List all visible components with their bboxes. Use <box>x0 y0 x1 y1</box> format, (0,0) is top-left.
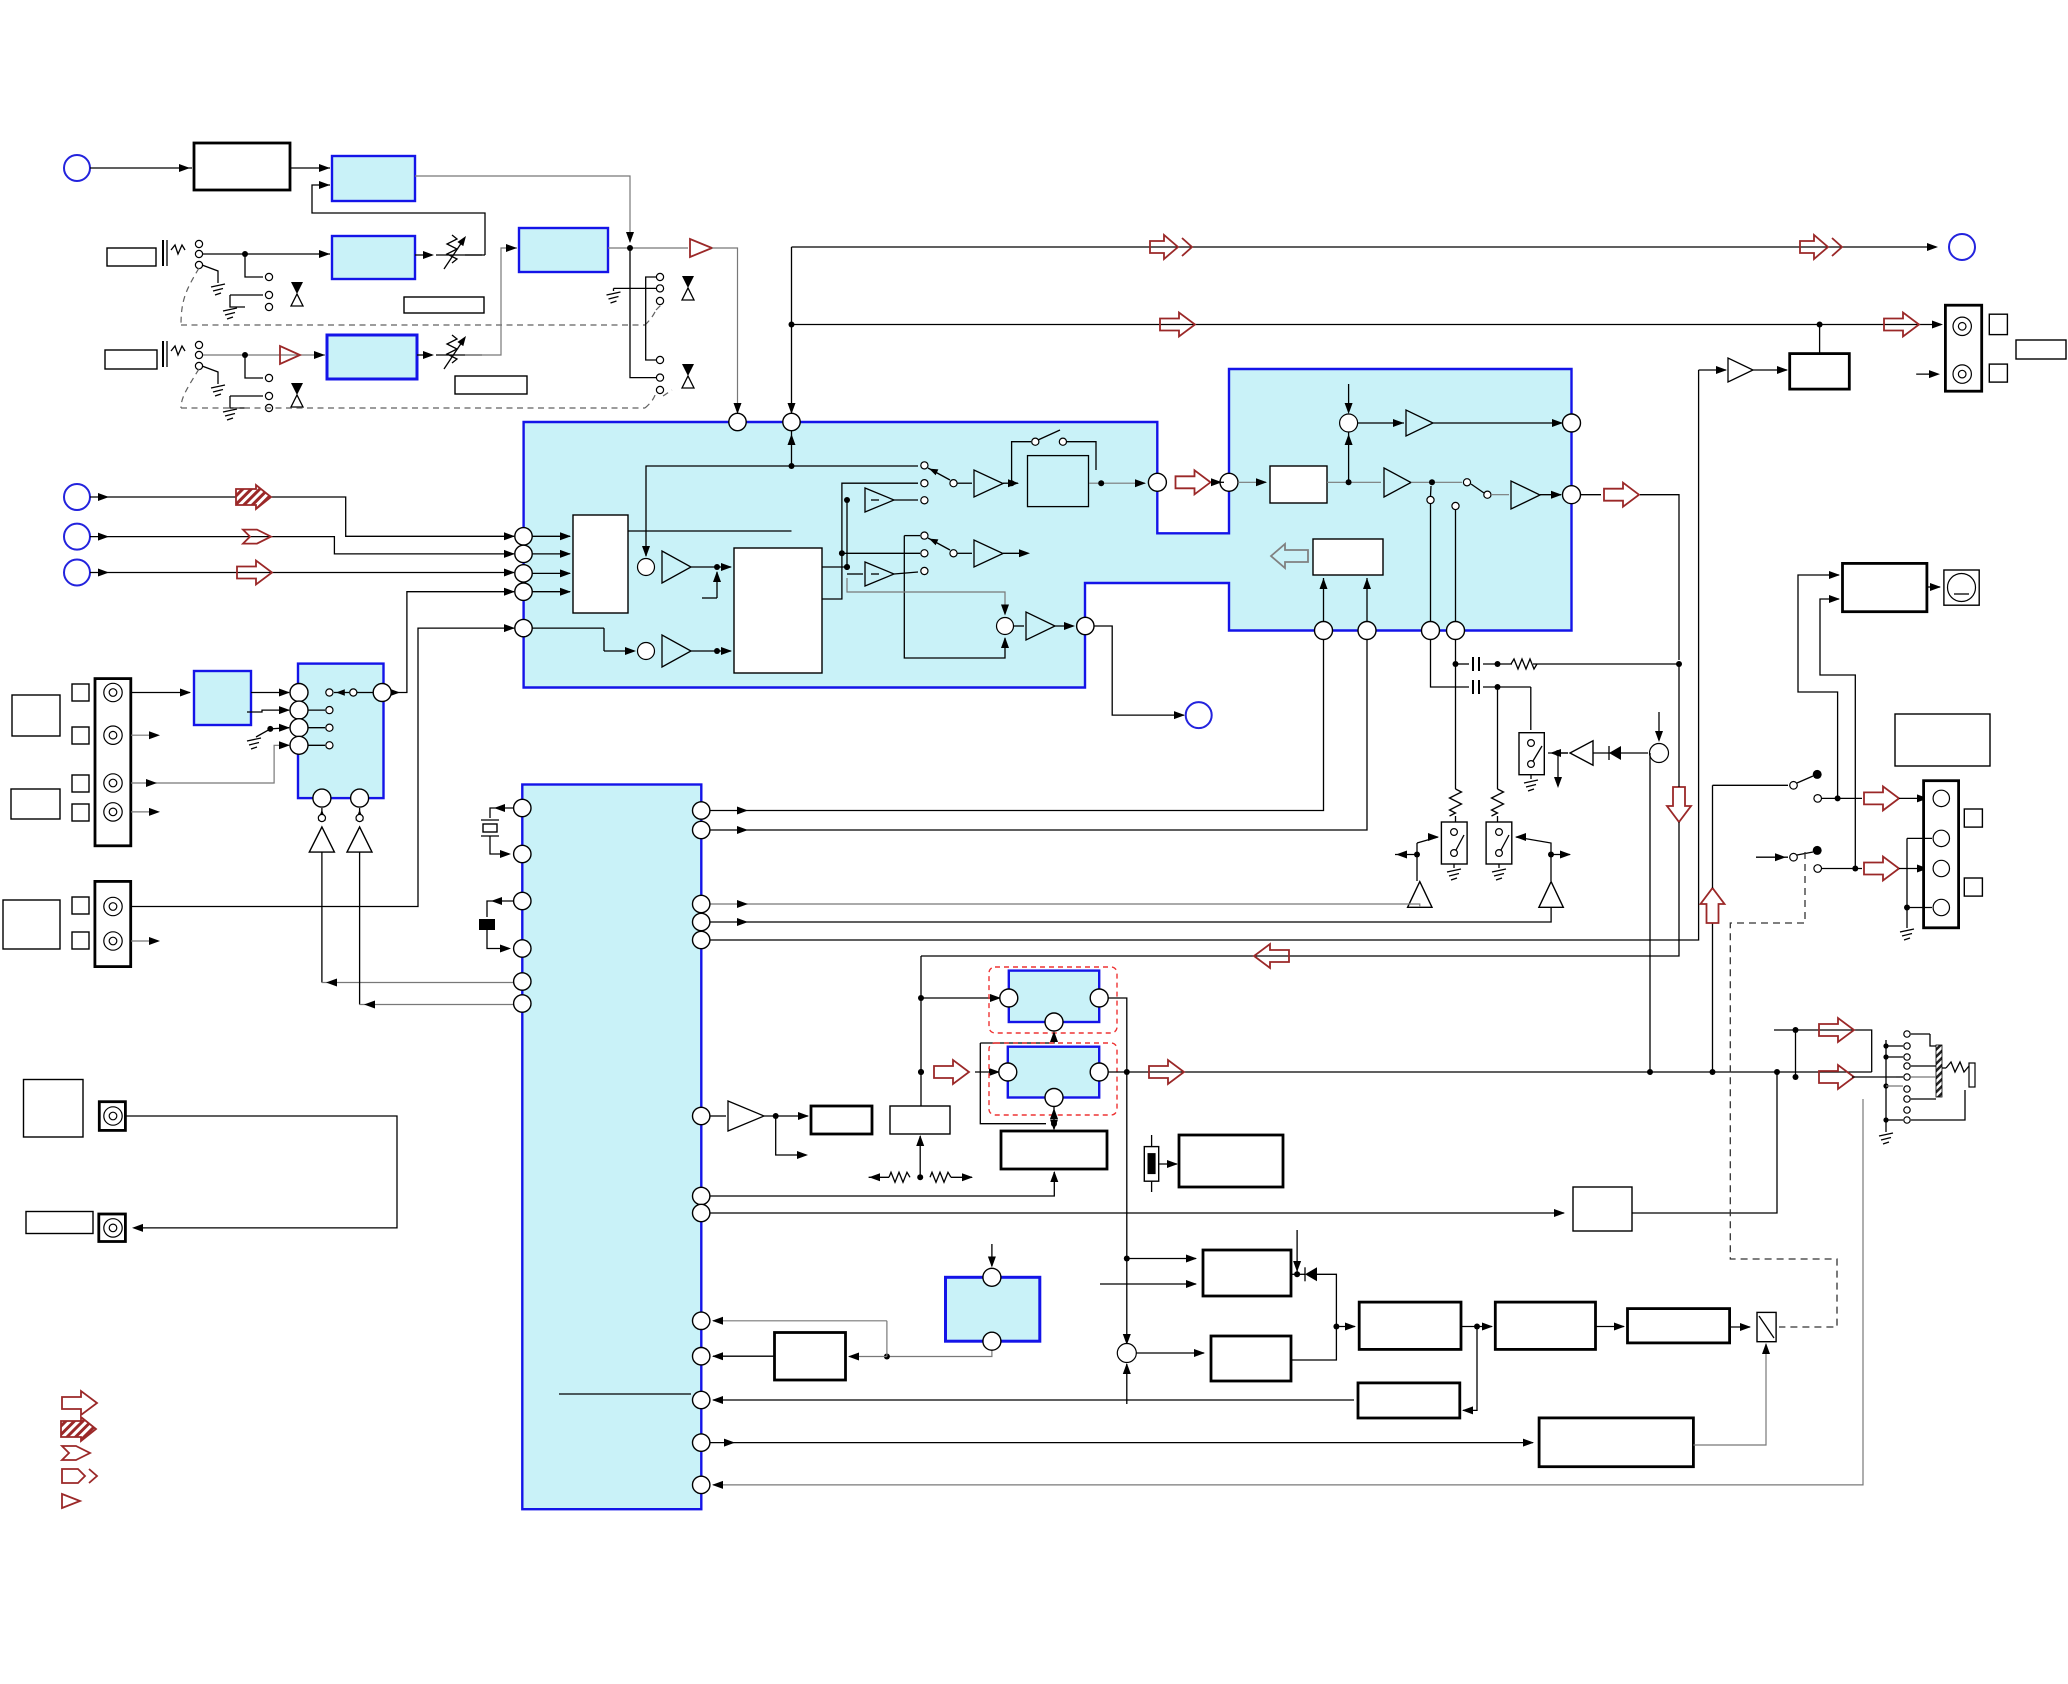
block cpu bold block4 <box>1179 1135 1283 1187</box>
wire chainC to mux <box>1730 1326 1750 1328</box>
wire pin1400 to blockD2 <box>713 1399 1354 1401</box>
stub into jack2 <box>1916 373 1938 375</box>
blockA pins <box>1000 989 1018 1007</box>
block label analog1 <box>12 695 60 736</box>
wire block2 out row B <box>822 483 918 599</box>
wire block3 to gap pin <box>1089 482 1145 484</box>
wire selector out up to pin4 <box>391 592 514 693</box>
amp triangle serial <box>728 1101 764 1131</box>
block rec selector cyan B4 <box>519 228 608 272</box>
junction stub down arrow <box>1555 750 1561 756</box>
cap row2 <box>1472 680 1474 694</box>
speaker relay switch 1 <box>1790 782 1798 790</box>
wire chainA to chainB <box>1461 1326 1492 1328</box>
wire switch feed y785 <box>1713 784 1789 786</box>
headphone sleeve bar <box>1969 1063 1975 1087</box>
block remote small <box>1573 1187 1632 1231</box>
selector bottom pins <box>313 789 331 807</box>
wire amp3 to block3 <box>1003 482 1018 484</box>
sum circle 1 <box>638 559 655 576</box>
wire buffer to selector <box>251 692 289 694</box>
wire IF output gray to right <box>415 176 630 242</box>
diode symbol <box>1593 752 1648 754</box>
block cd label row2 <box>105 350 157 369</box>
connector tape rec blue circle <box>1949 234 1975 260</box>
block protection bold <box>1843 563 1927 611</box>
amp triangle top row <box>1406 410 1433 436</box>
red arrow left on y956 <box>1254 944 1289 968</box>
amp triangle 2 <box>662 635 691 667</box>
wire pin to cap row1 <box>1455 640 1457 664</box>
ground row2 jack sleeve <box>202 366 218 384</box>
wire blockA chain vertical x921 <box>920 956 922 1106</box>
legend arrow 4 box chevron <box>62 1469 85 1483</box>
selector pin right <box>373 684 391 702</box>
dsp right data pins <box>693 1187 710 1204</box>
dashed control row2 <box>181 369 199 408</box>
rca panel digital <box>95 881 131 966</box>
wire dsp to buffer right <box>710 907 1551 922</box>
stub into supply circle top <box>1658 712 1660 740</box>
block decoder left arrow gray <box>1271 544 1308 568</box>
connector line in 2 blue <box>64 524 90 550</box>
wire key in pin1320 <box>713 1320 887 1322</box>
wire relay1 to meter block <box>1798 575 1839 798</box>
wire relay2 to meter block <box>1820 599 1855 869</box>
block micro aux block8 <box>890 1106 950 1134</box>
amp triangle 4b <box>1014 625 1024 627</box>
block dsp tall cyan <box>522 785 701 1510</box>
connector output blue circle <box>1186 702 1212 728</box>
wire blockE to mux gray <box>1693 1344 1766 1445</box>
red dashed box B <box>989 1043 1117 1115</box>
dsp right pins upper <box>693 802 710 819</box>
mute transistor left <box>321 808 323 812</box>
diode bottom right <box>1305 1267 1317 1281</box>
wire pin810 to cyan bottom circle1 <box>710 640 1324 811</box>
stub up into sum bottom <box>1126 1364 1128 1404</box>
wire line3 to pin3 <box>90 572 514 574</box>
pins left inputs <box>515 528 532 545</box>
wire gap pin to block4 <box>1238 481 1266 483</box>
wire bottom contact loop <box>1911 1090 1965 1120</box>
filter ceramic <box>487 901 513 917</box>
amp triangle S2 <box>974 540 1003 567</box>
buffer triangle up right <box>1539 882 1563 908</box>
stub jack2 <box>131 734 158 736</box>
wire vertical to sum3 <box>1348 432 1350 482</box>
resistor leg 2 <box>1497 687 1499 789</box>
wire monitor amp to main circle pin <box>712 248 738 413</box>
pin top 1 <box>729 413 746 430</box>
connector line in 1 blue <box>64 484 90 510</box>
ground chain speaker jacks <box>1907 837 1932 839</box>
attenuator row1 <box>415 254 432 256</box>
headphone bus vertical <box>1885 1040 1887 1132</box>
sum circle 2 <box>638 643 655 660</box>
amp red triangle monitor <box>690 239 712 257</box>
block label analog2 <box>11 789 60 819</box>
jack input row2 <box>162 341 164 367</box>
junction arrows right leg <box>1548 852 1554 858</box>
block main dsp block2 <box>734 548 822 673</box>
sum circle 3 top row <box>1340 414 1358 432</box>
wire blockD to block7 and branch <box>887 1347 992 1357</box>
red arrow into contact5 <box>1819 1065 1854 1089</box>
wire amp4 out to switch <box>1411 481 1462 483</box>
block display driver bold block3 <box>1001 1131 1107 1169</box>
wire bus x1679 corner <box>1678 664 1680 787</box>
sum circle 4 <box>997 618 1014 635</box>
rca panel speaker 4jack <box>1924 781 1959 928</box>
wire tuner to IF block <box>290 167 330 169</box>
wire upper stub line y1030 <box>1774 1030 1872 1066</box>
wire diode to blockA chain <box>1317 1274 1336 1326</box>
block label row1b <box>404 297 484 313</box>
block power block5 <box>1203 1250 1291 1296</box>
block chain E bottom <box>1539 1418 1693 1467</box>
wire block7 left to pin1356 <box>713 1355 775 1357</box>
meter icon <box>1944 570 1979 605</box>
wire row2 to switch box top <box>1530 687 1532 730</box>
pin gap right <box>1220 473 1238 491</box>
wire remote up to headphone bus <box>1632 1072 1777 1213</box>
block key block7 <box>775 1333 846 1381</box>
mux box diagonal <box>1757 1312 1776 1341</box>
block label digital <box>3 900 60 949</box>
selector pins left <box>290 684 308 702</box>
wire block6 right to chain <box>1291 1327 1336 1361</box>
amp red triangle row2 <box>280 346 300 364</box>
wire diode row top <box>1294 1271 1300 1277</box>
overline dash near pin1400 <box>559 1393 691 1395</box>
red dashed box A <box>989 967 1117 1033</box>
region main analog cyan polygon <box>524 369 1572 688</box>
switch main row <box>1463 479 1470 486</box>
red arrow down on bus <box>1667 787 1691 822</box>
terminal squares pair <box>1989 314 2007 334</box>
wire gap to eq block <box>1213 481 1224 483</box>
connector antenna blue circle <box>64 155 90 181</box>
stub jack4 <box>131 811 158 813</box>
wire interior y466 to sum1 <box>646 466 792 556</box>
dashed path remote control <box>1730 852 1837 1327</box>
wire data2 long right <box>710 1212 1564 1214</box>
wire output to vertical bus <box>1640 495 1679 660</box>
resistor leg 1 <box>1455 664 1457 789</box>
block eq block4 right region <box>1270 466 1327 503</box>
block IF cyan B1 <box>332 156 415 201</box>
dsp left pins <box>514 799 531 816</box>
pins bottom right region <box>1315 622 1333 640</box>
dsp right pin serial <box>693 1107 710 1124</box>
wire switch to amp5 <box>1491 494 1509 496</box>
wire block2 out row A <box>822 566 847 568</box>
wire digital jack to pin5 <box>131 628 514 906</box>
wire crystal to cpu <box>1159 1163 1177 1165</box>
block headphone driver <box>1790 354 1850 390</box>
block selector cyan <box>298 664 384 799</box>
block src B cyan <box>1008 1047 1099 1098</box>
rca pair panel top right <box>1945 305 1981 391</box>
block chain A <box>1359 1302 1461 1349</box>
wire amp2 to block2 <box>691 650 731 652</box>
red arrow gap <box>1176 470 1211 494</box>
amp triangle left facing <box>1570 741 1593 765</box>
rca panel analog in <box>95 679 131 846</box>
pin right top <box>1563 414 1581 432</box>
connector line in 3 blue <box>64 560 90 586</box>
dsp bottom right pins <box>693 1312 710 1329</box>
stub into blockD top <box>991 1244 993 1266</box>
wire interior from pin2 down <box>791 431 793 466</box>
wire mute1 from dsp <box>321 852 323 982</box>
block cassette label row1 <box>107 248 156 266</box>
legend arrow 2 hatched <box>61 1417 96 1441</box>
cap row1 <box>1456 663 1470 665</box>
terminal squares digital <box>72 897 89 914</box>
headphone plug resistor <box>1946 1062 1969 1072</box>
wire chainB to chainC <box>1596 1326 1625 1328</box>
block label right edge <box>2016 340 2066 359</box>
switch 3pos upper <box>921 462 928 469</box>
wire L1 to contact4 <box>1871 1066 1873 1072</box>
wire block4 to amp4 <box>1327 481 1381 483</box>
wire L1 contact5 entry <box>1896 1076 1903 1078</box>
wire blockA bypass loop <box>980 1033 1054 1043</box>
switch box mute top <box>1519 733 1544 775</box>
block serial out bold <box>811 1106 872 1134</box>
amp triangle 3 <box>974 470 1003 497</box>
blockD pins <box>983 1268 1001 1286</box>
branch serial down <box>776 1116 806 1155</box>
wire into blockA left pin <box>921 997 1000 999</box>
bypass switch over block3 <box>1012 442 1031 484</box>
wire mute2 from dsp <box>359 852 361 1004</box>
inverter amp 1 <box>865 488 894 512</box>
dsp right pins mid <box>693 895 710 912</box>
speaker relay switch 2 <box>1756 856 1788 858</box>
stub arrow into sum2 <box>603 628 605 651</box>
branch down to blockD2 <box>1463 1327 1477 1411</box>
legend arrow 1 open <box>62 1391 97 1415</box>
wire supply circle down bus <box>1649 753 1651 1071</box>
legend arrow 3 chevron <box>62 1446 90 1460</box>
wire switch feed row top <box>792 465 919 467</box>
block input buffer cyan <box>194 671 251 725</box>
wire line1 to pin1 <box>90 497 514 536</box>
junction arrows left leg <box>1414 852 1420 858</box>
red up arrow vertical 1712 <box>1712 923 1714 1071</box>
switch lower contacts <box>1427 496 1434 503</box>
varistor resistor pair <box>917 1174 923 1180</box>
supply circle <box>1650 744 1669 763</box>
wire sum to block6 <box>1136 1352 1204 1354</box>
wire pin to cap row2 <box>1431 640 1470 687</box>
stub digital jack2 <box>131 940 158 942</box>
headphone contact circles <box>1904 1031 1910 1037</box>
wire y938 line dsp pin to x1698 <box>710 370 1699 940</box>
crystal 1 <box>490 808 513 818</box>
sum circle bottom <box>1117 1344 1136 1363</box>
wire vertical main left bus <box>791 247 793 413</box>
wire B4 output to monitor amp <box>608 247 688 249</box>
block label optical in <box>24 1080 84 1138</box>
switch group row1 <box>245 254 263 277</box>
switch group row1 right <box>646 277 656 360</box>
red arrow output right <box>1581 494 1601 496</box>
wire into chain blockA <box>1336 1326 1355 1328</box>
wire amp1 to block2 <box>691 566 731 568</box>
pin gap left <box>1148 473 1166 491</box>
wires from switch contacts down to pins <box>1430 504 1432 621</box>
wire row1 jack to B2 <box>203 253 330 255</box>
wire switch to amp3 <box>957 482 972 484</box>
pin step border <box>1077 617 1094 634</box>
pin right main <box>1563 486 1581 504</box>
wire jack1 to buffer <box>131 692 190 694</box>
block tone cyan block3 <box>1028 456 1089 507</box>
switch group row2 right <box>630 248 656 378</box>
amp triangle 1 <box>662 551 691 583</box>
headphone jack hatched body <box>1936 1045 1942 1097</box>
wire interior block1 loop <box>628 530 792 532</box>
inverter amp 2 <box>844 564 850 570</box>
block chain B <box>1495 1302 1595 1349</box>
wire antenna to tuner <box>90 167 192 169</box>
terminal squares analog in <box>72 684 89 701</box>
wire triangle-left diode circle row <box>1548 752 1568 754</box>
stub line into block5 b <box>1100 1283 1196 1285</box>
block chain C <box>1628 1309 1730 1343</box>
switch box leg2 <box>1486 822 1512 864</box>
wire vertical 1795 link <box>1795 1030 1797 1077</box>
mute transistor right <box>359 808 361 812</box>
optical jack out <box>99 1214 126 1242</box>
jack input row1 <box>162 240 164 266</box>
block label optical out <box>26 1212 93 1234</box>
wire step pin to blue connector <box>1094 626 1184 715</box>
dashed control row1 <box>181 268 199 325</box>
wire attenuator2 to B4 <box>465 248 517 355</box>
wire blockB bottom to junction <box>1053 1107 1055 1124</box>
crystal resonator main <box>1144 1147 1158 1182</box>
switch box leg1 <box>1441 822 1467 864</box>
wire S2 top feed <box>904 535 920 537</box>
wire line2 to pin2 <box>90 537 514 554</box>
block src A cyan <box>1009 971 1099 1022</box>
block phono eq cyan B3 <box>327 335 417 379</box>
wire dsp to buffer left <box>710 904 1420 907</box>
block label row2b <box>455 376 527 394</box>
resistor row1 <box>1511 659 1537 669</box>
buffer triangle up left <box>1408 882 1432 908</box>
wire into step pin <box>1055 625 1073 627</box>
amp triangle headphone <box>1728 358 1753 382</box>
wire amp5 to right pin <box>1540 494 1561 496</box>
terminal squares speaker <box>1964 809 1982 827</box>
stub top into sum3 <box>1348 384 1350 412</box>
wire tape out line y247 <box>792 246 1937 248</box>
selector internal switch <box>326 689 333 696</box>
switch group row2 <box>245 355 263 378</box>
wire sum3 to amp and out <box>1358 422 1404 424</box>
wire pin1442 to blockE <box>710 1442 1533 1444</box>
wire jack3 to selector pin4 <box>131 745 289 783</box>
wire inverter branch <box>846 500 848 567</box>
block mode block5 right region <box>1313 539 1383 575</box>
red arrow before blockB <box>918 1069 924 1075</box>
wire blockA out to vertical bus <box>1108 998 1127 1344</box>
ground row1 jack sleeve <box>202 265 218 283</box>
block delay cyan B2 <box>332 236 415 279</box>
wire line out y324 <box>792 324 1942 326</box>
optical jack in <box>99 1102 125 1131</box>
wire feedback from attenuator1 to B1 <box>312 185 485 255</box>
wire cpu bus down branch1 <box>1124 1256 1130 1262</box>
selector ground cluster <box>247 710 289 712</box>
wires block5 inputs from bottom pins <box>1323 578 1325 621</box>
block chain D2 <box>1358 1383 1460 1418</box>
wire optical loop <box>125 1116 397 1228</box>
block input matrix block1 <box>573 515 628 613</box>
switch 3pos lower S2 <box>839 550 845 556</box>
wire pin1484 return gray <box>713 1099 1863 1485</box>
block power block6 <box>1211 1336 1291 1381</box>
wire row2 jack to B3 <box>203 354 325 356</box>
wire sum4 top feed <box>847 578 1005 614</box>
pin top 2 <box>783 413 800 430</box>
block label mid right <box>1895 714 1990 766</box>
legend triangle <box>62 1494 80 1508</box>
wire blockB out long line L1 <box>1108 1071 1872 1073</box>
wire driver to line out <box>1819 325 1821 354</box>
headphone tip contacts wires <box>1911 1033 1930 1035</box>
block vfd cyan blockD <box>946 1277 1040 1341</box>
wire pin830 to cyan bottom circle2 <box>710 640 1367 830</box>
amp triangle 4 main row <box>1384 468 1411 497</box>
block tuner front end <box>194 143 290 190</box>
wire serial junction <box>764 1115 808 1117</box>
wire pin5 long <box>532 627 604 629</box>
wire data1 to display driver <box>710 1172 1054 1196</box>
amp triangle 5 <box>1511 481 1540 509</box>
blockB pins <box>999 1063 1017 1081</box>
attenuator row2 <box>417 354 432 356</box>
